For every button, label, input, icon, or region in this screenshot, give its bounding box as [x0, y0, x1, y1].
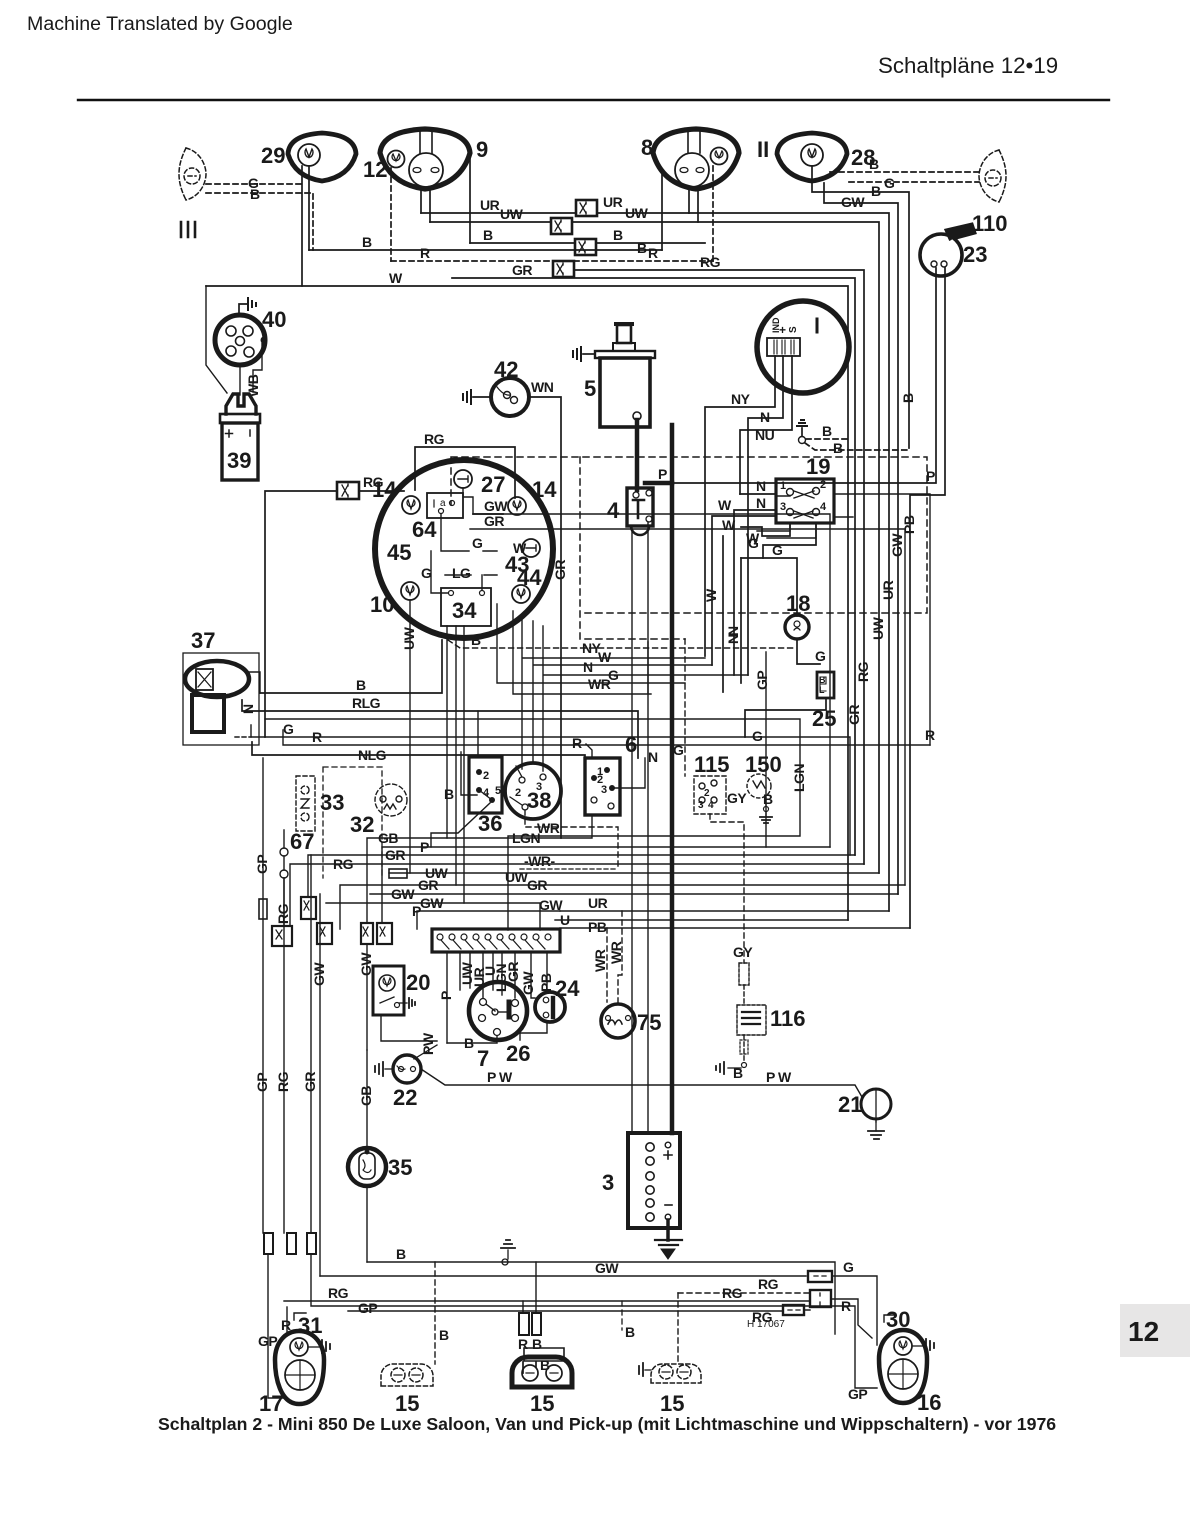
relay 115 (dashed) [694, 776, 726, 814]
svg-text:WN: WN [531, 379, 554, 395]
ground for 42 [473, 396, 491, 398]
middle band: wire WR dashed [520, 868, 618, 870]
wire R run [283, 730, 930, 745]
wires to center fuses [522, 1301, 524, 1313]
svg-text:U: U [560, 912, 570, 928]
svg-text:GP: GP [848, 1386, 867, 1402]
svg-text:UR: UR [588, 895, 608, 911]
svg-text:4: 4 [708, 800, 714, 811]
connector R [553, 261, 574, 277]
svg-text:10: 10 [370, 592, 394, 617]
wire W run mid [533, 621, 712, 763]
wire to connector from left [265, 491, 337, 737]
ignition coil 5 [595, 324, 655, 427]
svg-text:G: G [772, 542, 783, 558]
headlamp 9/12 [380, 129, 470, 189]
svg-text:B: B [822, 423, 832, 439]
svg-text:Schaltplan 2 - Mini 850 De Lux: Schaltplan 2 - Mini 850 De Luxe Saloon, … [158, 1414, 1056, 1434]
lamp 18 [785, 615, 809, 639]
svg-text:LG: LG [452, 565, 471, 581]
svg-text:P W: P W [766, 1069, 792, 1085]
fuse R center [519, 1313, 529, 1335]
starter solenoid 4 [627, 488, 653, 535]
svg-text:-WR-: -WR- [524, 853, 555, 869]
connector X left3 [361, 923, 373, 944]
wire 35 to B run [366, 1186, 368, 1262]
wire into 36 pin2 [477, 711, 479, 757]
svg-text:23: 23 [963, 242, 987, 267]
svg-text:14: 14 [532, 477, 557, 502]
middle band: wire GB [367, 815, 592, 923]
svg-text:1: 1 [780, 480, 786, 492]
connector RG [301, 897, 316, 919]
svg-text:110: 110 [972, 211, 1008, 236]
svg-text:N: N [756, 478, 766, 494]
dashed box around 32/33 [323, 767, 382, 878]
svg-text:N: N [648, 749, 658, 765]
switch 32 (dashed circle) [375, 784, 407, 816]
middle band: wire GW2 [326, 903, 540, 930]
middle band: wire RG [290, 864, 864, 926]
svg-text:B: B [532, 1336, 542, 1352]
svg-text:II: II [757, 137, 769, 162]
wire RG run bottom2 [284, 1300, 810, 1302]
svg-text:115: 115 [694, 752, 730, 777]
lamp 21 [861, 1089, 891, 1122]
wire UW from bulb 10 [409, 600, 411, 873]
wire B dashed to right 15 [677, 1293, 679, 1361]
svg-text:B: B [250, 186, 260, 202]
svg-text:12: 12 [1128, 1316, 1159, 1347]
svg-text:38: 38 [527, 788, 551, 813]
headlamp 28/11 [777, 133, 847, 181]
bulb 43 [522, 539, 540, 557]
svg-text:45: 45 [387, 540, 411, 565]
wire PW from 22 to 21 [414, 1045, 437, 1059]
svg-text:64: 64 [412, 517, 437, 542]
svg-text:GW: GW [520, 971, 536, 995]
wires 8 down [688, 188, 690, 213]
wire GY dashed from 115 [710, 814, 744, 963]
wire R to lamp 17 [286, 1307, 288, 1333]
svg-text:GR: GR [302, 1072, 318, 1092]
wire UR run [421, 212, 689, 214]
wire from 37 to B run [249, 672, 260, 693]
svg-text:GY: GY [733, 944, 753, 960]
svg-text:GR: GR [505, 962, 521, 982]
svg-text:G: G [884, 175, 895, 191]
connector UW [551, 218, 572, 234]
svg-text:GR: GR [385, 847, 405, 863]
wire below 116 [743, 1035, 745, 1062]
fuel gauge 34 [441, 588, 491, 626]
svg-text:12: 12 [363, 157, 387, 182]
wire G dashed to right side lamp [849, 181, 979, 183]
left column wire RG [283, 878, 285, 1233]
ground for 21 [875, 1119, 877, 1131]
svg-text:G: G [421, 565, 432, 581]
wire B run lower [309, 249, 662, 251]
svg-text:B: B [356, 677, 366, 693]
wire NU from generator [740, 356, 792, 494]
fuse strip [432, 929, 560, 952]
svg-text:3: 3 [780, 501, 786, 513]
bottom connectors left [264, 1233, 316, 1254]
svg-text:B: B [733, 1065, 743, 1081]
svg-text:UR: UR [880, 580, 896, 600]
svg-text:16: 16 [917, 1390, 941, 1415]
ground for 5 [583, 353, 595, 355]
svg-text:42: 42 [494, 357, 518, 382]
box 64 [427, 493, 463, 518]
svg-text:NLG: NLG [358, 747, 387, 763]
svg-text:8: 8 [641, 135, 653, 160]
svg-text:17: 17 [259, 1391, 283, 1416]
svg-text:PW: PW [420, 1032, 436, 1055]
wire frame left of 39 [206, 286, 227, 393]
wire 9 right to B run [469, 155, 471, 243]
wire WR dashed from 38 [525, 810, 618, 869]
wire B into 36 [461, 752, 477, 795]
wire R into 6 [586, 744, 592, 758]
number plate lamp 15 dashed right [651, 1364, 701, 1383]
svg-text:3: 3 [602, 1170, 614, 1195]
connector B [575, 239, 596, 255]
svg-text:GB: GB [378, 830, 398, 846]
middle band: wire U [555, 919, 848, 921]
svg-text:G: G [815, 648, 826, 664]
wire WN from 42 [529, 397, 561, 838]
svg-text:15: 15 [530, 1391, 554, 1416]
bulb 44 [512, 585, 530, 603]
node III label [181, 222, 195, 237]
wire UW run [430, 222, 879, 873]
wire B dashed to lamp 15 [434, 1262, 436, 1364]
ignition coil 39 body [220, 414, 260, 480]
svg-text:G: G [283, 721, 294, 737]
number plate lamp 15 center [512, 1348, 572, 1387]
wire B run upper [470, 242, 705, 244]
svg-text:UW: UW [870, 616, 886, 640]
wire B run bottom [367, 1262, 835, 1334]
wire W under 19 [741, 523, 790, 536]
switch 6 [585, 758, 620, 815]
svg-text:2: 2 [820, 479, 826, 491]
svg-text:GR: GR [418, 877, 438, 893]
inline connector on UW [389, 869, 407, 878]
svg-text:PB: PB [538, 973, 554, 992]
wire W vertical [722, 536, 724, 692]
ignition coil 39 (top tower) [226, 394, 256, 414]
svg-text:RG: RG [424, 431, 445, 447]
wire G under 19 [763, 523, 816, 558]
svg-text:P W: P W [487, 1069, 513, 1085]
svg-text:35: 35 [388, 1155, 412, 1180]
svg-text:4: 4 [607, 498, 620, 523]
middle band: wire GR [308, 855, 855, 897]
wires 9 bulb down [420, 188, 422, 213]
flasher 33 (dashed box) [296, 776, 315, 831]
switch 75 [601, 1004, 635, 1038]
wire P from horn [645, 268, 936, 483]
wire N to fuse 19 pin1 [740, 493, 776, 495]
wire PB from horn [910, 268, 945, 928]
svg-text:GP: GP [254, 855, 270, 874]
svg-text:B: B [483, 227, 493, 243]
svg-text:75: 75 [637, 1010, 661, 1035]
switch 38 [505, 763, 561, 819]
svg-text:GY: GY [727, 790, 747, 806]
wire B dashed from brake switch to B vertical [806, 438, 848, 440]
headlamp 29 [288, 133, 356, 181]
bulb 14 left [402, 496, 420, 514]
wire R from connector to lamp 16 [831, 1299, 872, 1338]
generator 1 [757, 301, 849, 393]
svg-text:GP: GP [358, 1300, 377, 1316]
ground for 20 [399, 1002, 407, 1004]
svg-text:WR: WR [537, 820, 560, 836]
wire from 29 to W run [301, 166, 303, 286]
svg-text:GW: GW [420, 895, 444, 911]
svg-text:Schaltpläne 12•19: Schaltpläne 12•19 [878, 53, 1058, 78]
wire UR continuation to bundle [689, 213, 889, 911]
svg-text:22: 22 [393, 1085, 417, 1110]
svg-text:26: 26 [506, 1041, 530, 1066]
wire GP bottom to lamp 17 [268, 1254, 284, 1398]
svg-text:PB: PB [901, 515, 917, 534]
svg-text:B: B [763, 791, 773, 807]
svg-text:W: W [722, 517, 736, 533]
rear lamp 16 [879, 1330, 927, 1403]
battery 3 [628, 1133, 680, 1228]
wire GW from 27 [463, 488, 830, 847]
wire WB [253, 343, 262, 392]
instrument cluster 45 [375, 460, 553, 638]
wire NY from generator [705, 356, 775, 656]
wire GR run [452, 278, 855, 855]
svg-text:2: 2 [515, 787, 521, 799]
left column wire GP [262, 758, 264, 1233]
bulb 14 right [508, 497, 526, 515]
number plate lamp 15 dashed left [381, 1364, 433, 1386]
node 31 bracket [294, 1313, 306, 1320]
wire RG from connector to cluster [359, 490, 404, 492]
wire GP vertical [765, 652, 767, 847]
svg-text:UR: UR [603, 194, 623, 210]
wire G to lamp 18 [741, 558, 797, 616]
svg-text:21: 21 [838, 1092, 862, 1117]
svg-text:GP: GP [254, 1073, 270, 1092]
connector X left1 [272, 926, 292, 946]
ground B near 116 [728, 1067, 741, 1069]
svg-text:RG: RG [275, 1071, 291, 1092]
fuse B center [532, 1313, 541, 1335]
wire B dashed from III [206, 193, 313, 250]
wire LG to 34 [445, 575, 497, 590]
svg-text:GW: GW [484, 498, 508, 514]
svg-text:B: B [833, 440, 843, 456]
svg-text:34: 34 [452, 598, 477, 623]
wire G to 34 [431, 551, 448, 593]
side lamp III (dashed, left) [179, 148, 206, 200]
wire W to fuse 19 [712, 516, 776, 665]
svg-text:N: N [583, 659, 593, 675]
svg-text:32: 32 [350, 812, 374, 837]
connector RG left of cluster [337, 482, 359, 499]
svg-text:B: B [540, 1357, 550, 1373]
wire B run [260, 640, 442, 693]
wire RLG run [242, 700, 638, 758]
svg-text:W: W [598, 649, 612, 665]
svg-text:N: N [756, 495, 766, 511]
svg-text:G: G [752, 728, 763, 744]
switch 24 [535, 992, 565, 1022]
svg-text:GW: GW [889, 533, 905, 557]
connector X bottom right [810, 1290, 831, 1307]
svg-text:NY: NY [731, 391, 751, 407]
svg-text:6: 6 [625, 732, 637, 757]
svg-text:P: P [412, 903, 421, 919]
svg-text:W: W [703, 588, 719, 602]
svg-text:G: G [673, 742, 684, 758]
page tab 12 [1120, 1304, 1190, 1357]
wire N from 6 pin3 [615, 758, 645, 788]
wire 12 dashed to R run [390, 168, 392, 261]
svg-text:3: 3 [601, 784, 607, 796]
middle band: wire GR2 [340, 885, 905, 929]
wire G below 25 [745, 698, 826, 737]
wire B from switch 7 [447, 1036, 497, 1043]
bulb 10 [401, 582, 419, 600]
svg-text:15: 15 [395, 1391, 419, 1416]
switch 25 [817, 672, 834, 698]
svg-text:B: B [869, 156, 879, 172]
connector RG2 [783, 1305, 804, 1315]
svg-text:RG: RG [758, 1276, 779, 1292]
ground for battery 3 [666, 1220, 670, 1240]
svg-text:GW: GW [595, 1260, 619, 1276]
svg-text:RG: RG [855, 661, 871, 682]
ignition switch 7/26 [469, 982, 527, 1040]
wire B from 150 to ground [765, 798, 767, 806]
svg-text:GP: GP [754, 671, 770, 690]
wire GW from 28 [824, 183, 898, 894]
svg-text:B: B [819, 675, 826, 685]
middle band: wire P2 [417, 911, 560, 929]
svg-text:G: G [748, 535, 759, 551]
svg-text:20: 20 [406, 970, 430, 995]
svg-text:GR: GR [484, 513, 504, 529]
wire from 36 pin5 diagonal [431, 803, 490, 847]
svg-text:7: 7 [477, 1046, 489, 1071]
bulb 27 [454, 470, 472, 488]
connector 67 [280, 848, 288, 856]
svg-text:4: 4 [820, 501, 827, 513]
svg-text:B: B [871, 183, 881, 199]
svg-text:LGN: LGN [791, 764, 807, 792]
svg-text:H 17067: H 17067 [747, 1319, 785, 1330]
svg-text:B: B [362, 234, 372, 250]
middle band: wire UW [389, 872, 879, 874]
map lamp 22 [393, 1055, 421, 1083]
svg-text:GR: GR [552, 560, 568, 580]
ground for right 15 [645, 1369, 651, 1371]
svg-text:R: R [572, 735, 582, 751]
svg-text:R: R [420, 245, 430, 261]
middle band: wire GW [370, 893, 898, 895]
side lamp dashed (right) [979, 150, 1006, 202]
svg-text:B: B [637, 240, 647, 256]
lamp 35 [348, 1148, 386, 1186]
svg-text:37: 37 [191, 628, 215, 653]
connector X left4 [377, 923, 392, 944]
wire WR run mid [513, 611, 651, 694]
svg-text:P: P [420, 839, 429, 855]
wire from solenoid to battery [631, 526, 633, 1133]
svg-text:5: 5 [495, 785, 501, 797]
connector G right [808, 1271, 832, 1282]
svg-text:B: B [439, 1327, 449, 1343]
wire B dashed to right side lamp [830, 171, 979, 173]
svg-text:PB: PB [588, 919, 607, 935]
wire N from generator [748, 356, 783, 675]
svg-text:GW: GW [841, 194, 865, 210]
svg-text:2: 2 [483, 770, 489, 782]
rear lamp 17 [275, 1331, 324, 1404]
wire B dashed stub [621, 1301, 623, 1330]
svg-text:RLG: RLG [352, 695, 381, 711]
wire from switch 24 [520, 1022, 547, 1040]
wires right of 19 [834, 494, 930, 745]
brake switch with ground [801, 428, 803, 436]
wire R dashed run [391, 260, 713, 262]
svg-text:GB: GB [358, 1086, 374, 1106]
svg-text:P: P [438, 991, 454, 1000]
headlamp 8 [653, 129, 739, 189]
svg-text:4: 4 [483, 787, 490, 799]
svg-text:15: 15 [660, 1391, 684, 1416]
svg-text:2: 2 [704, 788, 710, 799]
svg-text:GR: GR [512, 262, 532, 278]
ground at B run [507, 1250, 509, 1259]
wire from 34 down left [446, 626, 448, 838]
svg-text:B: B [444, 786, 454, 802]
svg-text:WR: WR [592, 949, 608, 972]
svg-text:L: L [819, 685, 825, 695]
wire 40 center to coil 39 [239, 365, 241, 395]
svg-text:29: 29 [261, 143, 285, 168]
interior lamp 20 [373, 966, 404, 1015]
svg-text:a: a [440, 498, 446, 509]
wire GW run bottom [320, 1275, 806, 1277]
svg-text:RG: RG [722, 1285, 743, 1301]
lamp 42 [491, 378, 529, 416]
svg-text:UW: UW [500, 206, 524, 222]
buzzer 150 (dashed) [747, 774, 771, 798]
horn 23 [920, 224, 975, 276]
svg-text:B: B [613, 227, 623, 243]
svg-text:B: B [396, 1246, 406, 1262]
left column wire GR [310, 855, 312, 1233]
svg-text:150: 150 [745, 752, 782, 777]
battery cable 5 to solenoid 4 [635, 420, 640, 490]
wire NLG run [252, 742, 585, 762]
wire G run mid [497, 604, 685, 683]
ground for 17 [308, 1346, 320, 1348]
svg-text:N: N [760, 409, 770, 425]
wire 18 down to G [797, 639, 820, 664]
ground for 22 [385, 1068, 393, 1070]
